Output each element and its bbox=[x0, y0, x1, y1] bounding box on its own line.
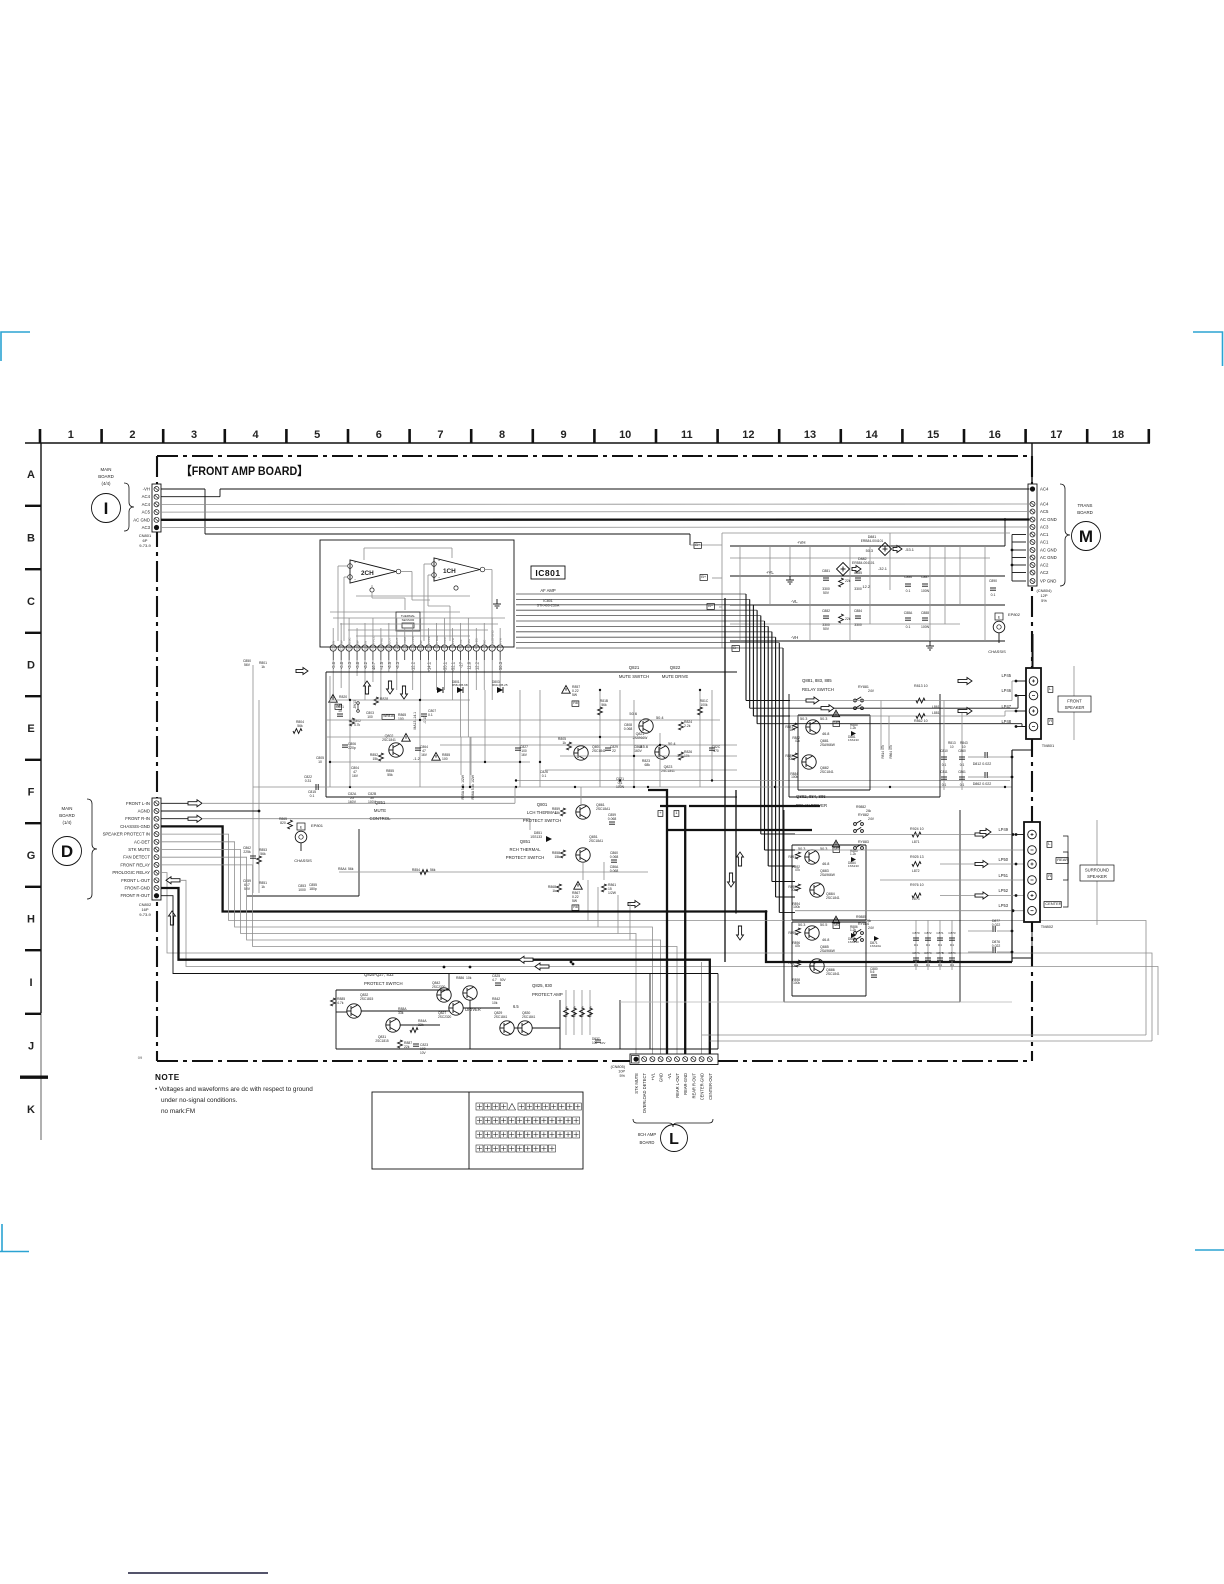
transistor Q884 bbox=[810, 883, 824, 897]
speaker tag R bbox=[1047, 874, 1052, 880]
svg-text:2SC1841: 2SC1841 bbox=[826, 896, 840, 900]
svg-text:0.1: 0.1 bbox=[950, 963, 955, 967]
chassis lug EP801 bbox=[294, 823, 324, 863]
speaker tag L bbox=[1047, 842, 1052, 848]
transistor Q885 bbox=[805, 926, 819, 940]
svg-text:C890: C890 bbox=[989, 579, 997, 583]
svg-text:IC801: IC801 bbox=[535, 568, 560, 578]
svg-text:12: 12 bbox=[411, 647, 415, 651]
svg-text:C873: C873 bbox=[948, 931, 956, 935]
arrow down bbox=[737, 926, 744, 940]
svg-text:E: E bbox=[27, 723, 34, 735]
svg-text:5: 5 bbox=[314, 429, 320, 441]
transistor Q861 LCH bbox=[576, 805, 590, 819]
svg-text:1: 1 bbox=[68, 429, 74, 441]
svg-text:100N: 100N bbox=[921, 589, 930, 593]
svg-text:2SC1841: 2SC1841 bbox=[382, 738, 396, 742]
capacitor row C870 bbox=[915, 920, 917, 970]
svg-text:-VH: -VH bbox=[143, 487, 150, 492]
svg-text:7: 7 bbox=[437, 429, 443, 441]
note text bbox=[155, 1073, 313, 1115]
svg-text:B+: B+ bbox=[695, 542, 701, 547]
capacitor D876 bbox=[992, 947, 994, 953]
wire TM802 return bbox=[1012, 922, 1032, 958]
svg-text:R854: R854 bbox=[412, 868, 420, 872]
svg-text:(1/4): (1/4) bbox=[62, 820, 72, 825]
svg-text:R886: R886 bbox=[456, 976, 464, 980]
svg-text:R84 47k: R84 47k bbox=[581, 1006, 585, 1018]
svg-text:3: 3 bbox=[191, 429, 197, 441]
svg-text:50V: 50V bbox=[500, 978, 507, 982]
svg-text:50.3: 50.3 bbox=[498, 661, 503, 670]
wire IC internal bbox=[330, 548, 492, 641]
svg-text:AC4: AC4 bbox=[1040, 487, 1049, 492]
IC801 label bbox=[531, 566, 565, 608]
svg-text:C888: C888 bbox=[921, 611, 929, 615]
svg-text:−: − bbox=[354, 578, 356, 582]
svg-text:Q821: Q821 bbox=[629, 665, 640, 670]
svg-text:2SC1841: 2SC1841 bbox=[494, 1015, 508, 1019]
svg-text:50.5: 50.5 bbox=[820, 923, 827, 927]
arrow up bbox=[737, 852, 744, 866]
junction dots bbox=[349, 699, 351, 701]
wire relay out 3 bbox=[790, 715, 1005, 717]
IC801 pin voltage labels bbox=[331, 661, 503, 671]
svg-text:R58.205.68: R58.205.68 bbox=[452, 683, 468, 687]
svg-text:4: 4 bbox=[253, 429, 260, 441]
svg-text:R976 10: R976 10 bbox=[910, 883, 924, 887]
svg-text:-6.8: -6.8 bbox=[339, 661, 344, 669]
svg-text:C886: C886 bbox=[904, 575, 912, 579]
wire FAN DETECT bbox=[161, 857, 661, 1054]
svg-text:−: − bbox=[438, 576, 440, 580]
svg-text:9: 9 bbox=[436, 647, 438, 651]
arrow bbox=[296, 668, 308, 675]
wire return bottom bbox=[702, 1034, 1146, 1036]
svg-text:+4.5: +4.5 bbox=[379, 661, 384, 670]
svg-text:MUTE SWITCH: MUTE SWITCH bbox=[619, 674, 649, 679]
svg-text:under no-signal conditions.: under no-signal conditions. bbox=[161, 1097, 238, 1104]
svg-text:1.2k: 1.2k bbox=[850, 726, 856, 730]
svg-text:2SC2320: 2SC2320 bbox=[438, 1015, 452, 1019]
capacitor C890 bbox=[990, 587, 996, 589]
svg-text:46.8: 46.8 bbox=[822, 938, 829, 942]
svg-text:2.2k: 2.2k bbox=[684, 724, 691, 728]
svg-text:16: 16 bbox=[379, 647, 383, 651]
svg-text:B−: B− bbox=[708, 603, 714, 608]
wire IC internal buses bbox=[333, 618, 505, 636]
warning mark bbox=[832, 916, 839, 922]
svg-text:100: 100 bbox=[398, 717, 404, 721]
wire to TM801 bbox=[1032, 634, 1034, 668]
svg-text:FRONT-GND: FRONT-GND bbox=[124, 886, 150, 891]
wire bbox=[580, 787, 582, 805]
svg-text:B: B bbox=[27, 533, 35, 545]
wire AC5 bbox=[161, 511, 1030, 514]
brace bbox=[633, 1119, 713, 1127]
svg-text:STK MUTE: STK MUTE bbox=[634, 1073, 639, 1094]
svg-text:REAR L-OUT: REAR L-OUT bbox=[675, 1073, 680, 1098]
svg-text:B−: B− bbox=[733, 645, 739, 650]
svg-text:AC4: AC4 bbox=[142, 494, 151, 499]
svg-text:4: 4 bbox=[475, 647, 477, 651]
svg-text:TRANS: TRANS bbox=[1078, 503, 1093, 508]
svg-text:2SA966W: 2SA966W bbox=[820, 949, 836, 953]
svg-text:160V: 160V bbox=[348, 800, 357, 804]
svg-text:BOARD: BOARD bbox=[59, 813, 75, 818]
capacitor C885 bbox=[855, 577, 861, 579]
svg-text:C811: C811 bbox=[940, 770, 948, 774]
svg-text:1/2W: 1/2W bbox=[608, 891, 617, 895]
net tag B- bbox=[732, 646, 739, 652]
speaker tag R bbox=[1048, 719, 1053, 725]
svg-text:LP46: LP46 bbox=[1001, 688, 1011, 693]
arrow bbox=[958, 678, 972, 685]
op-amp 1CH bbox=[432, 558, 485, 590]
svg-text:50.3: 50.3 bbox=[800, 717, 807, 721]
speaker tag REAR bbox=[1056, 858, 1068, 864]
svg-text:0.022: 0.022 bbox=[992, 944, 1001, 948]
svg-text:20: 20 bbox=[347, 647, 351, 651]
svg-text:PROTECT SWITCH: PROTECT SWITCH bbox=[364, 981, 403, 986]
svg-text:L872: L872 bbox=[912, 869, 920, 873]
wire FRONT-GND (thick) bbox=[161, 888, 710, 1054]
connector CN802 (to MAIN BOARD, circle D) bbox=[53, 798, 162, 917]
wire AC4 bbox=[161, 503, 1030, 505]
svg-text:K: K bbox=[27, 1104, 35, 1116]
svg-text:2SC1841: 2SC1841 bbox=[826, 972, 840, 976]
svg-text:SPEAKER: SPEAKER bbox=[1065, 705, 1085, 710]
svg-text:0.1: 0.1 bbox=[906, 589, 911, 593]
svg-text:3: 3 bbox=[483, 647, 485, 651]
svg-text:C88A: C88A bbox=[904, 611, 913, 615]
IC801 pin name labels bbox=[332, 629, 503, 644]
svg-text:12.2: 12.2 bbox=[474, 661, 479, 670]
arrow left bbox=[519, 956, 533, 963]
arrow left bbox=[535, 963, 549, 970]
svg-text:2SC1841: 2SC1841 bbox=[522, 1015, 536, 1019]
svg-text:1.2k: 1.2k bbox=[850, 928, 856, 932]
svg-text:50.3: 50.3 bbox=[798, 847, 805, 851]
transistor Q829 bbox=[500, 1021, 514, 1035]
net tag + bbox=[658, 811, 663, 817]
svg-text:CENTER-GND: CENTER-GND bbox=[700, 1073, 705, 1100]
svg-text:AC GND: AC GND bbox=[1040, 548, 1057, 553]
capacitor C888 bbox=[922, 617, 928, 619]
wire bundle feeds to relay rows bbox=[746, 701, 795, 913]
svg-text:16V: 16V bbox=[521, 753, 528, 757]
wire bbox=[1031, 443, 1033, 484]
svg-text:R8A4: R8A4 bbox=[338, 867, 347, 871]
svg-text:C884: C884 bbox=[854, 609, 862, 613]
svg-text:SPEAKER PROTECT IN: SPEAKER PROTECT IN bbox=[103, 832, 150, 837]
connector CN804 (to TRANS BOARD, circle M) bbox=[1028, 484, 1101, 603]
svg-text:4.7: 4.7 bbox=[492, 978, 497, 982]
svg-text:10: 10 bbox=[338, 709, 342, 713]
resistor bank bbox=[565, 990, 567, 1035]
svg-text:ERB84-004101: ERB84-004101 bbox=[852, 561, 875, 565]
svg-text:100k: 100k bbox=[793, 981, 800, 985]
wire bbox=[1016, 680, 1026, 682]
svg-text:Q882, 884, 886: Q882, 884, 886 bbox=[796, 794, 826, 799]
capacitor C884 bbox=[855, 615, 861, 617]
svg-text:L881: L881 bbox=[932, 711, 940, 715]
svg-text:I: I bbox=[104, 499, 109, 518]
warning mark bbox=[329, 695, 338, 703]
svg-text:9-73-9: 9-73-9 bbox=[139, 543, 151, 548]
svg-text:MAIN: MAIN bbox=[101, 467, 112, 472]
svg-text:0.1: 0.1 bbox=[428, 713, 433, 717]
svg-text:EP802: EP802 bbox=[1008, 612, 1021, 617]
wire left column bbox=[252, 665, 254, 893]
svg-text:EP801: EP801 bbox=[311, 823, 324, 828]
thermal sensor bbox=[396, 612, 420, 631]
transistor Q821 bbox=[639, 719, 653, 733]
svg-text:10V: 10V bbox=[420, 1051, 427, 1055]
warning mark bbox=[562, 686, 571, 694]
wire SPEAKER PROTECT IN bbox=[161, 834, 1146, 1035]
svg-text:1SS133: 1SS133 bbox=[848, 738, 859, 742]
svg-text:RELAY SWITCH: RELAY SWITCH bbox=[802, 687, 834, 692]
svg-text:2SC1841: 2SC1841 bbox=[820, 770, 834, 774]
capacitor D812 bbox=[984, 752, 986, 758]
warning mark bbox=[432, 753, 441, 761]
svg-text:24V: 24V bbox=[868, 926, 875, 930]
svg-text:1SS133: 1SS133 bbox=[848, 864, 859, 868]
svg-text:FRONT R-IN: FRONT R-IN bbox=[125, 816, 150, 821]
svg-text:LP47: LP47 bbox=[1001, 704, 1011, 709]
svg-text:LP48: LP48 bbox=[1001, 719, 1011, 724]
svg-text:R84 47k: R84 47k bbox=[573, 1006, 577, 1018]
svg-text:50.3: 50.3 bbox=[820, 717, 827, 721]
svg-text:C871: C871 bbox=[936, 931, 944, 935]
transistor Q883 bbox=[805, 850, 819, 864]
svg-text:50V: 50V bbox=[244, 887, 251, 891]
svg-text:1: 1 bbox=[499, 647, 501, 651]
svg-text:0.31: 0.31 bbox=[305, 779, 312, 783]
svg-text:C860: C860 bbox=[958, 749, 966, 753]
svg-text:TM801: TM801 bbox=[1042, 743, 1055, 748]
svg-text:R84 47k: R84 47k bbox=[589, 1006, 593, 1018]
arrow bbox=[188, 800, 202, 807]
net tag bbox=[335, 704, 342, 709]
svg-text:50.6: 50.6 bbox=[629, 711, 637, 716]
wire FRONT R-IN bbox=[161, 818, 188, 820]
svg-text:AC GND: AC GND bbox=[1040, 517, 1057, 522]
svg-text:2SC18A1: 2SC18A1 bbox=[596, 807, 610, 811]
svg-text:47k: 47k bbox=[795, 944, 801, 948]
svg-text:NOTE: NOTE bbox=[155, 1073, 180, 1082]
svg-text:100: 100 bbox=[367, 715, 373, 719]
wire FRONT L-IN bbox=[161, 802, 188, 804]
svg-text:R862 10: R862 10 bbox=[914, 719, 928, 723]
svg-text:11: 11 bbox=[419, 647, 423, 651]
svg-text:R9885: R9885 bbox=[856, 915, 866, 919]
wire bbox=[339, 871, 648, 873]
svg-text:5%: 5% bbox=[620, 1074, 626, 1078]
svg-text:2SC1841: 2SC1841 bbox=[592, 749, 606, 753]
svg-text:13: 13 bbox=[403, 647, 407, 651]
svg-text:19: 19 bbox=[355, 647, 359, 651]
warning mark bbox=[574, 882, 583, 890]
svg-text:PROTECT SWITCH: PROTECT SWITCH bbox=[523, 818, 562, 823]
svg-text:+: + bbox=[438, 559, 440, 563]
svg-text:68k: 68k bbox=[645, 763, 651, 767]
svg-text:+2G: +2G bbox=[475, 638, 479, 644]
svg-text:R84 47k: R84 47k bbox=[565, 1006, 569, 1018]
svg-text:47k: 47k bbox=[795, 739, 801, 743]
wire bbox=[620, 1001, 1012, 1003]
svg-text:0.068: 0.068 bbox=[608, 817, 617, 821]
wire TM801 return bbox=[1012, 739, 1032, 750]
svg-text:0.1: 0.1 bbox=[906, 625, 911, 629]
svg-text:BOARD: BOARD bbox=[1077, 510, 1093, 515]
arrow left bbox=[166, 877, 180, 884]
svg-text:C870: C870 bbox=[912, 931, 920, 935]
svg-text:8: 8 bbox=[444, 647, 446, 651]
svg-text:A: A bbox=[27, 469, 35, 481]
svg-text:-8.2: -8.2 bbox=[363, 661, 368, 669]
svg-text:-12.2: -12.2 bbox=[411, 661, 416, 671]
svg-text:9: 9 bbox=[561, 429, 567, 441]
wire IC pin risers bbox=[333, 618, 500, 645]
wire AC3 bbox=[161, 526, 1030, 529]
diode D801 bbox=[437, 687, 443, 693]
svg-text:STK400-230A: STK400-230A bbox=[537, 604, 560, 608]
connector CN801 (to MAIN BOARD, circle I) bbox=[92, 467, 162, 548]
svg-text:1CH: 1CH bbox=[443, 568, 456, 575]
svg-text:AC3: AC3 bbox=[1040, 525, 1049, 530]
svg-text:18: 18 bbox=[1112, 429, 1124, 441]
svg-text:24k: 24k bbox=[866, 919, 872, 923]
transistor Q827 bbox=[449, 1001, 463, 1015]
arrow bbox=[821, 705, 834, 712]
svg-text:15k: 15k bbox=[555, 811, 561, 815]
svg-text:9-73-9: 9-73-9 bbox=[139, 912, 151, 917]
svg-text:AC2: AC2 bbox=[1040, 570, 1049, 575]
capacitor D862 bbox=[984, 772, 986, 778]
svg-text:180p: 180p bbox=[309, 887, 317, 891]
arrow bbox=[980, 829, 991, 836]
net tag bbox=[572, 701, 579, 707]
svg-text:(4/4): (4/4) bbox=[101, 481, 111, 486]
svg-text:FAN DETECT: FAN DETECT bbox=[123, 855, 150, 860]
svg-text:10: 10 bbox=[950, 745, 954, 749]
arrow bbox=[806, 697, 819, 704]
arrow bbox=[628, 901, 640, 908]
warning mark bbox=[402, 734, 411, 742]
op-amp IC801 outline box bbox=[320, 540, 514, 647]
net tag MS bbox=[833, 721, 840, 726]
svg-text:-VL: -VL bbox=[667, 1072, 672, 1079]
svg-text:-6.5: -6.5 bbox=[387, 661, 392, 669]
svg-text:MS: MS bbox=[834, 847, 840, 851]
svg-text:10: 10 bbox=[619, 429, 631, 441]
wire CHASSIS-GND (thick) bbox=[161, 826, 1012, 962]
wire internal bbox=[336, 974, 650, 1050]
svg-text:470: 470 bbox=[713, 749, 719, 753]
svg-text:REAR-GND: REAR-GND bbox=[683, 1073, 688, 1095]
svg-text:14: 14 bbox=[865, 429, 878, 441]
svg-text:0.1: 0.1 bbox=[950, 943, 955, 947]
svg-text:6.5: 6.5 bbox=[513, 1004, 519, 1009]
svg-text:D812 0.022: D812 0.022 bbox=[973, 762, 992, 766]
arrow bbox=[188, 815, 202, 822]
wire bus bbox=[516, 780, 1010, 782]
arrow bbox=[975, 831, 988, 838]
svg-text:10P: 10P bbox=[618, 1070, 625, 1074]
svg-text:VP GND: VP GND bbox=[1040, 579, 1056, 584]
svg-text:Q801: Q801 bbox=[537, 802, 548, 807]
svg-text:0.1: 0.1 bbox=[960, 783, 965, 787]
svg-text:-VL: -VL bbox=[791, 599, 798, 604]
svg-text:50V: 50V bbox=[823, 627, 830, 631]
svg-text:0.1: 0.1 bbox=[960, 763, 965, 767]
svg-text:-1.2: -1.2 bbox=[413, 756, 421, 761]
svg-text:22: 22 bbox=[331, 647, 335, 651]
wire main bus bbox=[253, 786, 1012, 788]
svg-text:MUTE DRIVE: MUTE DRIVE bbox=[662, 674, 689, 679]
svg-text:+: + bbox=[354, 561, 356, 565]
wire IC pin drop lines bbox=[333, 660, 500, 737]
svg-text:• Voltages and waveforms are d: • Voltages and waveforms are dc with res… bbox=[155, 1086, 313, 1093]
svg-text:46.7: 46.7 bbox=[371, 661, 376, 670]
warning mark bbox=[832, 710, 839, 716]
svg-text:LP45: LP45 bbox=[1001, 673, 1011, 678]
svg-text:225k: 225k bbox=[243, 850, 251, 854]
svg-text:Q825, 830: Q825, 830 bbox=[532, 983, 553, 988]
svg-text:12: 12 bbox=[742, 429, 754, 441]
svg-text:L871: L871 bbox=[912, 840, 920, 844]
svg-text:-27: -27 bbox=[458, 661, 463, 668]
svg-text:2SC1815: 2SC1815 bbox=[360, 997, 374, 1001]
svg-text:LP53: LP53 bbox=[998, 903, 1008, 908]
surround speaker box bbox=[1080, 820, 1114, 925]
svg-text:0.022: 0.022 bbox=[992, 923, 1001, 927]
svg-text:220p: 220p bbox=[348, 746, 356, 750]
svg-text:OVERLOAD DETECT: OVERLOAD DETECT bbox=[642, 1073, 647, 1114]
net tag bbox=[572, 905, 579, 911]
svg-text:2SA966W: 2SA966W bbox=[820, 743, 836, 747]
svg-text:1SS133: 1SS133 bbox=[530, 835, 542, 839]
svg-text:12.2: 12.2 bbox=[862, 584, 870, 589]
svg-text:FRONT L-IN: FRONT L-IN bbox=[126, 801, 150, 806]
svg-text:I: I bbox=[29, 977, 32, 989]
svg-text:22k: 22k bbox=[845, 579, 851, 583]
svg-text:FRONT: FRONT bbox=[1067, 699, 1082, 704]
svg-text:100: 100 bbox=[592, 1041, 598, 1045]
svg-text:1SS16A: 1SS16A bbox=[870, 944, 881, 948]
power supply rectifier block bbox=[722, 533, 1010, 648]
svg-text:100N: 100N bbox=[921, 625, 930, 629]
capacitor C88A bbox=[905, 617, 911, 619]
svg-text:WR816: WR816 bbox=[383, 714, 394, 718]
terminal strip TM802 bbox=[1024, 822, 1040, 922]
svg-text:D: D bbox=[27, 660, 35, 672]
svg-text:PROTECT SWITCH: PROTECT SWITCH bbox=[506, 855, 545, 860]
relay driver block outline bbox=[784, 810, 960, 1002]
svg-text:3300: 3300 bbox=[854, 587, 862, 591]
svg-text:5W: 5W bbox=[572, 899, 578, 903]
svg-text:50V: 50V bbox=[823, 591, 830, 595]
svg-text:55k: 55k bbox=[387, 773, 393, 777]
svg-text:CHASSIS: CHASSIS bbox=[294, 858, 312, 863]
svg-text:C872: C872 bbox=[924, 931, 932, 935]
svg-text:CONTROL: CONTROL bbox=[369, 816, 391, 821]
svg-text:24V: 24V bbox=[868, 689, 875, 693]
svg-text:-55.1: -55.1 bbox=[443, 661, 448, 671]
svg-text:6: 6 bbox=[460, 647, 462, 651]
